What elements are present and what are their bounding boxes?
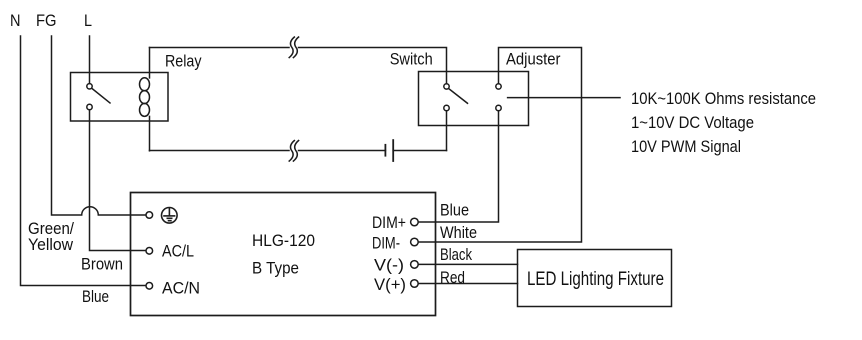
svg-text:10V PWM Signal: 10V PWM Signal (631, 137, 741, 156)
svg-text:Black: Black (440, 245, 472, 264)
svg-text:AC/N: AC/N (162, 279, 200, 298)
svg-text:LED Lighting Fixture: LED Lighting Fixture (527, 268, 664, 290)
svg-text:V(-): V(-) (374, 256, 404, 275)
svg-text:10K~100K Ohms resistance: 10K~100K Ohms resistance (631, 89, 816, 108)
svg-text:N: N (10, 11, 21, 30)
svg-text:L: L (84, 11, 92, 30)
svg-text:Relay: Relay (165, 52, 202, 71)
svg-text:AC/L: AC/L (162, 242, 194, 261)
svg-text:Blue: Blue (82, 287, 109, 306)
svg-text:1~10V DC Voltage: 1~10V DC Voltage (631, 113, 754, 132)
svg-text:B Type: B Type (252, 259, 299, 278)
svg-text:Yellow: Yellow (28, 235, 74, 254)
svg-text:FG: FG (36, 11, 57, 30)
svg-text:HLG-120: HLG-120 (252, 231, 315, 250)
svg-text:Switch: Switch (390, 50, 433, 69)
svg-text:DIM+: DIM+ (372, 213, 406, 232)
svg-text:Red: Red (440, 268, 465, 287)
svg-text:White: White (440, 223, 477, 242)
svg-text:Brown: Brown (81, 255, 123, 274)
svg-text:V(+): V(+) (374, 275, 406, 294)
svg-text:Blue: Blue (440, 201, 469, 220)
svg-text:DIM-: DIM- (372, 234, 400, 253)
svg-text:Adjuster: Adjuster (506, 50, 561, 69)
